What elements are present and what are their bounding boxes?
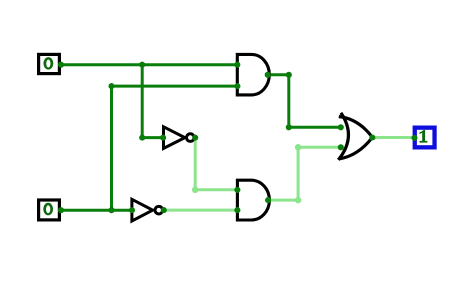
node dot: corner net B (108, 83, 114, 89)
logic output M1 box (415, 128, 435, 148)
node dot: output box post (411, 135, 417, 141)
node dot: AND2 output (265, 197, 271, 203)
node dot: input L2 post (58, 207, 64, 213)
AND gate U1 (top) (237, 54, 269, 95)
wire W14 AND2 output up (high) (297, 147, 300, 200)
node dot: junction net B (108, 207, 114, 213)
node dot: NOT2 output (161, 207, 167, 213)
OR gate U5 body curves (339, 117, 373, 159)
wire W13 AND2 output (high) (268, 199, 298, 202)
wire W1 net A: input L1 to AND1 input 1 (61, 63, 237, 66)
node dot: corner W13-W14 (high) (295, 197, 302, 204)
wire W7 AND1 output (268, 73, 289, 76)
NOT gate U4 (bottom inverter) triangle (132, 199, 153, 221)
node dot: OR input 2 (338, 144, 344, 150)
wire W6 net B: input L2 to NOT2 input (61, 209, 133, 212)
logic input L2 box (39, 200, 60, 220)
node dot: NOT2 input (129, 207, 135, 213)
wire W9 to OR input 1 (289, 126, 341, 129)
wire W4 net B: horizontal to AND1 input 2 (112, 85, 238, 88)
node dot: OR output (369, 134, 375, 140)
logic input L1 value 0 (43, 57, 53, 70)
OR gate U5 concave left arc (338, 113, 348, 160)
wire W15 to OR input 2 (high) (298, 146, 341, 149)
wire W11 to AND2 input 1 (high) (195, 188, 237, 191)
logic input L1 box (39, 54, 60, 73)
node dot: NOT1 input (160, 135, 166, 141)
wire W12 NOT2 output to AND2 input 2 (high) (164, 209, 238, 212)
wire W10 NOT1 output down (high) (194, 138, 197, 190)
NOT gate U4 bubble (155, 206, 163, 214)
node dot: junction net A (139, 62, 145, 68)
node dot: corner W7-W8 (286, 72, 292, 78)
NOT gate U2 (middle inverter) triangle (164, 127, 185, 149)
logic output M1 value 1 (420, 130, 428, 143)
node dot: OR input 1 (338, 124, 344, 130)
node dot: AND1 input 1 (234, 62, 240, 68)
node dot: AND1 output (265, 72, 271, 78)
wire W3 net A: corner to NOT1 input (142, 136, 164, 139)
node dot: corner W14-W15 (high) (295, 144, 302, 151)
node dot: input L1 post (58, 62, 64, 68)
wire W8 AND1 output down (287, 75, 290, 128)
wire W2 net A: junction down (141, 65, 144, 138)
node dot: AND2 input 2 (234, 207, 240, 213)
wire W16 OR output to output box (high) (372, 136, 413, 139)
AND gate U3 (bottom) (237, 180, 269, 220)
node dot: corner W10-W11 (high) (192, 187, 199, 194)
node dot: AND1 input 2 (234, 83, 240, 89)
logic input L2 value 0 (43, 203, 53, 216)
wire W5 net B: vertical trunk (110, 86, 113, 210)
node dot: corner W2-W3 (139, 135, 145, 141)
node dot: corner W8-W9 (286, 124, 292, 130)
node dot: AND2 input 1 (234, 187, 240, 193)
NOT gate U2 bubble (187, 134, 195, 142)
node dot: NOT1 output (192, 135, 198, 141)
